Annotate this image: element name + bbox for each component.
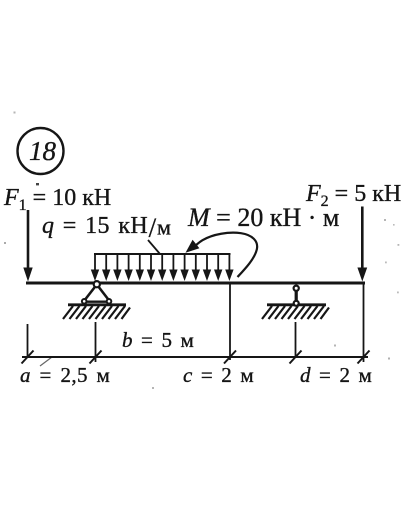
svg-text:d = 2 м: d = 2 м: [300, 363, 372, 387]
svg-text:18: 18: [29, 136, 57, 166]
svg-text:a = 2,5 м: a = 2,5 м: [20, 363, 110, 387]
svg-text:M = 20 кН · м: M = 20 кН · м: [187, 203, 339, 232]
svg-text:F1 = 10 кН: F1 = 10 кН: [3, 185, 111, 214]
svg-text:q = 15 кН/м: q = 15 кН/м: [42, 213, 171, 243]
svg-text:F2 = 5 кН: F2 = 5 кН: [305, 181, 401, 210]
svg-text:c = 2 м: c = 2 м: [183, 363, 254, 387]
svg-text:b = 5 м: b = 5 м: [122, 328, 194, 352]
